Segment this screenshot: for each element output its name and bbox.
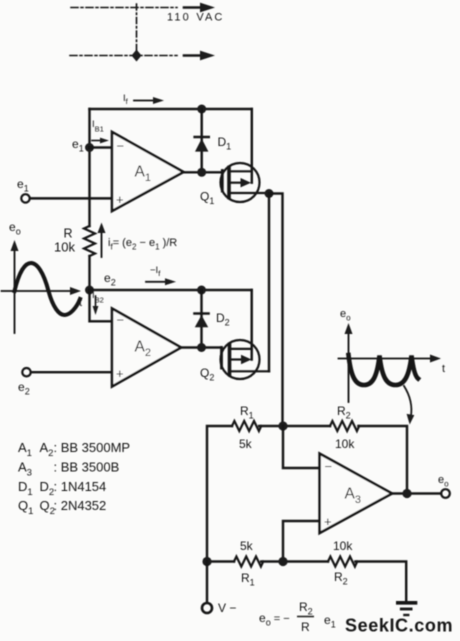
wire V- lead xyxy=(206,562,208,603)
wire 110VAC dashed line bottom xyxy=(70,55,177,57)
wire e1 terminal to A1 plus xyxy=(30,197,112,199)
terminal eo output xyxy=(441,489,450,498)
wire 110VAC dashed line top xyxy=(71,7,177,9)
resistor R 10k xyxy=(84,226,95,256)
wire A1 output to Q1 gate xyxy=(183,171,222,173)
svg-text:t: t xyxy=(442,363,445,375)
svg-text:−: − xyxy=(117,139,125,154)
resistor R1 5k upper xyxy=(232,421,261,431)
node dot summing junction xyxy=(278,421,287,430)
svg-text:+: + xyxy=(116,192,124,207)
svg-text:10k: 10k xyxy=(333,539,353,553)
node dot lower middle xyxy=(278,557,287,566)
resistor R2 10k upper xyxy=(330,421,359,431)
resistor R2 10k lower xyxy=(328,557,357,567)
terminal V- xyxy=(202,603,212,613)
wire D1 top to Q1 drain corner xyxy=(251,109,253,183)
svg-text:t: t xyxy=(79,297,82,309)
formula fraction bar xyxy=(297,616,314,618)
wire e2 terminal to A2 plus xyxy=(31,371,112,373)
node dot e2 xyxy=(85,286,94,295)
node dot D1 top xyxy=(197,105,206,114)
wire Q1 source jog to summing vertical xyxy=(269,194,283,427)
wire A3 output xyxy=(392,492,441,494)
node dot lower left xyxy=(202,557,211,566)
terminal e2 xyxy=(22,368,30,376)
op-amp A3 xyxy=(320,454,392,533)
svg-text:+: + xyxy=(116,366,124,381)
op-amp A2 xyxy=(112,309,181,387)
transistor Q1 xyxy=(221,163,270,202)
svg-text:+: + xyxy=(324,514,332,529)
wire R2 to output vertical xyxy=(358,426,407,494)
input sine vertical axis xyxy=(11,240,19,333)
svg-text:: 1N4154: : 1N4154 xyxy=(54,479,107,494)
transistor Q2 xyxy=(221,340,270,379)
ground xyxy=(398,603,416,615)
svg-text:: BB 3500MP: : BB 3500MP xyxy=(54,440,131,455)
svg-text:5k: 5k xyxy=(240,539,254,553)
svg-text:5k: 5k xyxy=(239,437,253,451)
output waveform vertical axis xyxy=(345,323,353,402)
output waveform curved arrow xyxy=(404,386,414,425)
output waveform rectified scallops xyxy=(349,355,419,385)
wire e2 node to A2 minus xyxy=(90,290,113,321)
wire summing dot to A3 minus xyxy=(283,426,320,468)
svg-text:V −: V − xyxy=(218,601,236,615)
wire upper R row left corner and left vertical xyxy=(207,426,232,562)
wire A1 top feedback xyxy=(90,108,252,110)
svg-text:10k: 10k xyxy=(335,437,355,451)
node dot D2 bottom xyxy=(197,343,206,352)
wire Q1 source to Q2 source vertical xyxy=(268,194,270,372)
diode D2 xyxy=(194,290,208,348)
wire R bottom to e2 node xyxy=(88,256,90,290)
op-amp A1 xyxy=(112,132,184,211)
node 110VAC junction diamond xyxy=(132,50,142,62)
input sine horizontal axis xyxy=(2,287,82,295)
output waveform horizontal axis xyxy=(339,355,442,363)
resistor R1 5k lower xyxy=(234,557,263,567)
svg-text:−: − xyxy=(325,459,333,474)
node dot D1 bottom xyxy=(197,168,206,177)
wire lower row middle xyxy=(261,560,328,562)
wire 110VAC arrow bottom xyxy=(184,51,215,61)
wire A3 plus to lower row xyxy=(283,521,320,562)
node dot Q1 source xyxy=(265,189,274,198)
wire lower row xyxy=(207,560,234,562)
wire 110VAC vertical dash-dot xyxy=(136,4,138,51)
wire e1 node to A1 minus xyxy=(90,146,113,148)
input sine waveform xyxy=(15,263,81,315)
svg-text:: 2N4352: : 2N4352 xyxy=(54,498,107,513)
wire left vertical e1 node down to R xyxy=(88,109,90,226)
wire D2 top to Q2 drain corner xyxy=(250,290,252,360)
wire -If arrow xyxy=(146,278,176,285)
svg-text:110VAC: 110VAC xyxy=(167,12,224,24)
node dot D2 top xyxy=(197,286,206,295)
svg-text:SeekIC.com: SeekIC.com xyxy=(345,616,453,636)
wire e2 node to D2 corner xyxy=(90,289,252,291)
wire if arrow up xyxy=(98,223,106,258)
wire lower row to ground xyxy=(355,562,406,601)
svg-text:R: R xyxy=(301,620,310,634)
wire IB2 arrow down xyxy=(93,296,99,315)
svg-text:R: R xyxy=(64,227,73,241)
wire 110VAC arrow top xyxy=(184,3,215,13)
svg-text:−: − xyxy=(117,313,125,328)
wire R1 to summing dot xyxy=(259,425,330,427)
terminal e1 xyxy=(21,194,29,202)
wire If arrow xyxy=(134,97,164,104)
svg-text:10k: 10k xyxy=(54,240,75,255)
diode D1 xyxy=(195,109,209,172)
wire A2 output to Q2 gate xyxy=(181,346,222,348)
node dot A3 output xyxy=(402,489,411,498)
wire IB1 arrow xyxy=(92,138,109,144)
svg-text:: BB 3500B: : BB 3500B xyxy=(54,460,120,475)
node dot e1 xyxy=(85,143,94,152)
